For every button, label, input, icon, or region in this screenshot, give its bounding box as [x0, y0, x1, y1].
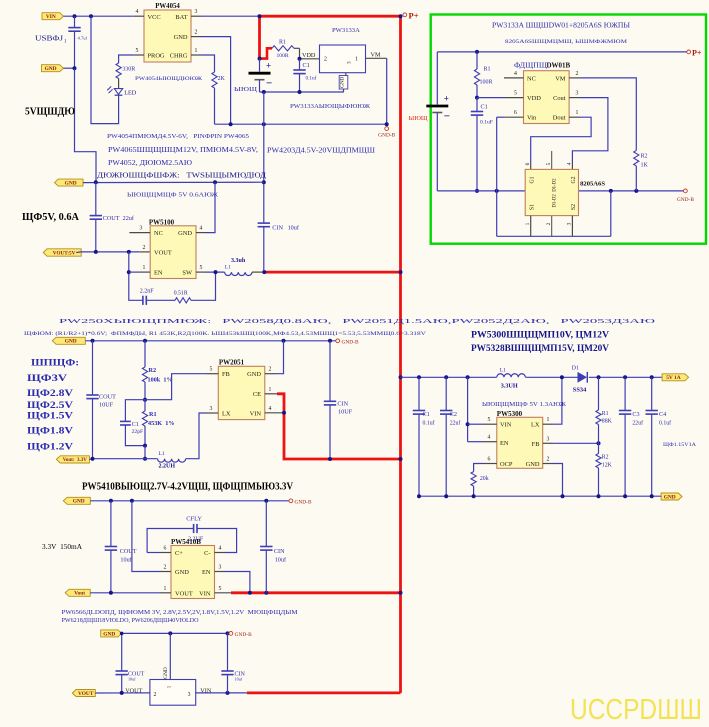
svg-text:10uf: 10uf — [275, 557, 287, 564]
svg-text:2.2nF: 2.2nF — [140, 289, 155, 295]
svg-text:5VЩШДЮ: 5VЩШДЮ — [25, 106, 75, 118]
svg-text:PW5328BШЩЩМП15V, ЦМ20V: PW5328BШЩЩМП15V, ЦМ20V — [471, 343, 609, 354]
svg-text:ЩФ1.5V: ЩФ1.5V — [27, 411, 74, 421]
svg-text:GND: GND — [65, 181, 77, 187]
svg-text:453K 1%: 453K 1% — [148, 420, 174, 427]
svg-text:SS34: SS34 — [573, 386, 587, 393]
svg-text:10uf: 10uf — [128, 676, 136, 681]
svg-text:C1: C1 — [303, 62, 310, 69]
svg-text:VDD: VDD — [527, 95, 541, 102]
svg-text:C1: C1 — [481, 103, 488, 110]
svg-text:1: 1 — [576, 110, 579, 116]
svg-text:1: 1 — [525, 222, 531, 225]
svg-text:ЫЮЩЩМЩФ 5V 0.6AЮЖ: ЫЮЩЩМЩФ 5V 0.6AЮЖ — [127, 192, 219, 198]
svg-text:C4: C4 — [659, 411, 666, 418]
svg-text:ЩФЮМ: (R1/R2+1)*0.6V; ФПМФДЫ,: ЩФЮМ: (R1/R2+1)*0.6V; ФПМФДЫ, R1 453K,R2… — [24, 330, 426, 337]
svg-text:VOUT: VOUT — [175, 590, 193, 597]
svg-text:G1: G1 — [530, 176, 536, 183]
svg-text:0.1uF: 0.1uF — [480, 119, 493, 125]
svg-text:NC: NC — [527, 75, 536, 82]
svg-text:10uf: 10uf — [235, 676, 243, 681]
svg-text:1K: 1K — [641, 162, 649, 168]
svg-text:0.1uf: 0.1uf — [423, 420, 435, 427]
svg-text:CHRG: CHRG — [170, 53, 188, 60]
svg-text:R1: R1 — [602, 411, 609, 417]
svg-text:3: 3 — [576, 91, 579, 97]
svg-text:ФДЩПЩ: ФДЩПЩ — [514, 62, 547, 69]
svg-text:UCCPDШШ: UCCPDШШ — [570, 694, 702, 726]
svg-text:GND: GND — [526, 461, 540, 468]
svg-text:6: 6 — [164, 546, 167, 552]
svg-text:ЩФ3V: ЩФ3V — [27, 373, 68, 383]
svg-text:PW6218ДЩШ18VЮLDO, PW6206ДЩШ40V: PW6218ДЩШ18VЮLDO, PW6206ДЩШ40VЮLDO — [62, 617, 200, 624]
svg-text:100R: 100R — [277, 53, 289, 59]
svg-text:P+: P+ — [692, 48, 702, 57]
svg-text:PROG: PROG — [148, 53, 165, 60]
svg-text:0.51R: 0.51R — [174, 291, 188, 297]
svg-text:8205A6S: 8205A6S — [580, 180, 605, 187]
svg-text:1: 1 — [355, 57, 358, 63]
svg-text:ЩФ5V, 0.6A: ЩФ5V, 0.6A — [22, 212, 79, 223]
svg-text:PW3133AЫЮЩЫФЮЮЖ: PW3133AЫЮЩЫФЮЮЖ — [290, 104, 371, 110]
svg-text:PW4203Д4.5V-20VШДПМЩШ: PW4203Д4.5V-20VШДПМЩШ — [267, 146, 376, 155]
svg-text:EN: EN — [154, 270, 163, 277]
svg-text:OCP: OCP — [500, 461, 513, 468]
svg-text:2: 2 — [195, 30, 198, 36]
svg-text:4.7uf: 4.7uf — [78, 36, 88, 41]
svg-text:330R: 330R — [122, 67, 135, 73]
svg-text:10UF: 10UF — [338, 408, 353, 415]
svg-text:ЩФ1.2V: ЩФ1.2V — [27, 442, 74, 452]
svg-text:VOUT: VOUT — [154, 250, 172, 257]
svg-text:5: 5 — [514, 91, 517, 97]
svg-text:88K: 88K — [602, 419, 613, 425]
svg-text:GND: GND — [163, 667, 169, 679]
svg-text:12K: 12K — [602, 462, 613, 468]
svg-text:0.1uf: 0.1uf — [306, 75, 317, 82]
svg-text:1: 1 — [195, 48, 198, 54]
svg-text:2: 2 — [547, 457, 550, 463]
svg-text:BAT: BAT — [175, 14, 187, 21]
svg-text:ЩФ2.5V: ЩФ2.5V — [27, 400, 74, 410]
svg-text:R1: R1 — [279, 40, 286, 46]
svg-text:5: 5 — [488, 417, 491, 423]
svg-text:PW4054ЫЮЩДЮЮЖ: PW4054ЫЮЩДЮЮЖ — [135, 76, 203, 82]
svg-text:5: 5 — [200, 265, 203, 271]
svg-text:20k: 20k — [480, 476, 489, 482]
svg-text:3: 3 — [219, 565, 222, 571]
svg-text:C2: C2 — [450, 411, 457, 418]
svg-text:PW5300: PW5300 — [497, 410, 523, 418]
svg-text:PW4054ПМЮМД4.5V-6V, PINФPIN: PW4054ПМЮМД4.5V-6V, PINФPIN PW4065 — [107, 133, 249, 140]
svg-text:VCC: VCC — [148, 14, 161, 21]
svg-text:PW250XЫЮЩПМЮЖ: PW2058Д0.8AЮ,: PW250XЫЮЩПМЮЖ: PW2058Д0.8AЮ, PW2051Д1.5A… — [59, 318, 655, 325]
svg-text:GND: GND — [178, 230, 192, 237]
svg-text:GND: GND — [174, 34, 188, 41]
svg-text:GND: GND — [175, 569, 189, 576]
svg-text:PW5410B: PW5410B — [171, 538, 201, 546]
svg-text:GND: GND — [247, 371, 261, 378]
svg-text:PW2051: PW2051 — [219, 359, 245, 367]
svg-text:GND: GND — [73, 499, 85, 505]
svg-text:+: + — [266, 61, 271, 71]
svg-text:LX: LX — [531, 422, 540, 429]
svg-text:L1: L1 — [225, 264, 231, 270]
svg-text:VM: VM — [555, 75, 566, 82]
svg-text:VIN: VIN — [250, 410, 262, 417]
svg-text:CIN: CIN — [274, 548, 285, 555]
svg-text:GND-B: GND-B — [342, 339, 359, 345]
svg-text:LED: LED — [124, 89, 137, 96]
svg-text:ЫЮЩЩМЩФ 5V 1.3AЮЖ: ЫЮЩЩМЩФ 5V 1.3AЮЖ — [482, 402, 567, 408]
svg-text:C3: C3 — [632, 411, 639, 418]
svg-text:3.3V 150mA: 3.3V 150mA — [42, 542, 83, 551]
svg-text:6: 6 — [525, 162, 531, 165]
svg-text:4: 4 — [269, 406, 272, 412]
svg-text:CFLY: CFLY — [186, 516, 202, 523]
svg-text:10UF: 10UF — [99, 402, 114, 409]
svg-text:R2: R2 — [149, 367, 157, 374]
svg-text:4: 4 — [200, 226, 203, 232]
svg-text:3.3UH: 3.3UH — [501, 382, 518, 389]
svg-text:2: 2 — [143, 245, 146, 251]
svg-text:3.3uh: 3.3uh — [231, 258, 246, 264]
svg-text:−: − — [266, 78, 272, 90]
svg-text:R1: R1 — [149, 411, 157, 418]
svg-text:1: 1 — [269, 387, 272, 393]
svg-text:SW: SW — [182, 270, 193, 277]
svg-text:100R: 100R — [480, 79, 493, 85]
svg-text:22uf: 22uf — [632, 420, 643, 427]
svg-text:R2: R2 — [602, 454, 609, 460]
svg-text:GND: GND — [65, 339, 77, 345]
svg-text:2.2UH: 2.2UH — [159, 464, 176, 470]
svg-text:4: 4 — [136, 9, 139, 15]
svg-text:PW5410BЫЮЩ2.7V-4.2VЩШ, ЩФЩПМЫЮ: PW5410BЫЮЩ2.7V-4.2VЩШ, ЩФЩПМЫЮ3.3V — [82, 481, 294, 492]
svg-text:5: 5 — [210, 367, 213, 373]
svg-text:−: − — [444, 111, 450, 123]
svg-text:3: 3 — [347, 61, 353, 64]
svg-text:5V 1A: 5V 1A — [666, 375, 681, 381]
svg-text:GND-B: GND-B — [295, 499, 312, 505]
svg-text:2: 2 — [324, 57, 327, 63]
svg-text:5: 5 — [136, 48, 139, 54]
svg-text:5: 5 — [546, 162, 552, 165]
svg-text:2: 2 — [576, 71, 579, 77]
svg-text:C1: C1 — [423, 411, 430, 418]
svg-text:Cout: Cout — [553, 95, 566, 102]
svg-text:EN: EN — [202, 569, 211, 576]
svg-text:FB: FB — [222, 371, 230, 378]
svg-text:D1-D2 D1-D2: D1-D2 D1-D2 — [553, 178, 558, 208]
svg-text:L1: L1 — [159, 451, 165, 457]
svg-text:22pF: 22pF — [132, 429, 144, 435]
svg-text:COUT: COUT — [99, 394, 116, 401]
svg-text:+: + — [444, 94, 449, 104]
svg-text:C+: C+ — [175, 550, 183, 557]
svg-text:ЩФ2.8V: ЩФ2.8V — [27, 388, 74, 398]
svg-text:2: 2 — [269, 367, 272, 373]
svg-text:VOUT:5V: VOUT:5V — [53, 250, 76, 256]
svg-text:4: 4 — [567, 162, 573, 165]
svg-text:VOUT: VOUT — [78, 691, 94, 697]
svg-text:1: 1 — [164, 586, 167, 592]
svg-text:USBФJ: USBФJ — [35, 34, 63, 43]
svg-text:Vout: 3.3V: Vout: 3.3V — [63, 458, 88, 463]
svg-text:4: 4 — [219, 546, 222, 552]
svg-text:VIN: VIN — [46, 14, 56, 20]
svg-text:ЫЮЩ: ЫЮЩ — [234, 87, 257, 93]
svg-text:S2: S2 — [571, 204, 577, 210]
svg-text:5: 5 — [219, 586, 222, 592]
svg-text:PW5100: PW5100 — [149, 218, 175, 226]
svg-text:3: 3 — [140, 226, 143, 232]
svg-text:Dout: Dout — [553, 115, 566, 122]
svg-text:3: 3 — [195, 9, 198, 15]
svg-text:4: 4 — [488, 435, 491, 441]
svg-text:C1: C1 — [132, 421, 139, 428]
svg-text:DW01B: DW01B — [547, 61, 571, 69]
svg-text:22uf: 22uf — [450, 420, 461, 427]
svg-text:COUT 22uf: COUT 22uf — [103, 215, 135, 222]
svg-text:VM: VM — [371, 52, 381, 59]
svg-text:NC: NC — [154, 230, 163, 237]
svg-text:3: 3 — [188, 692, 191, 698]
svg-text:CE: CE — [253, 391, 261, 398]
svg-text:ШПЩФ:: ШПЩФ: — [31, 357, 82, 367]
svg-text:PW4052, ДЮЮМ2.5AЮ: PW4052, ДЮЮМ2.5AЮ — [108, 158, 192, 167]
svg-text:Vout: Vout — [74, 591, 85, 597]
svg-text:2: 2 — [154, 692, 157, 698]
svg-text:2: 2 — [164, 565, 167, 571]
svg-text:C-: C- — [204, 550, 210, 557]
svg-text:P+: P+ — [409, 11, 419, 21]
svg-text:LX: LX — [222, 410, 231, 417]
svg-text:PW3133A ШЩШDW01+8205A6S ЮЖПЫ: PW3133A ШЩШDW01+8205A6S ЮЖПЫ — [492, 20, 630, 29]
svg-text:Vin: Vin — [527, 115, 537, 122]
svg-text:ДЮЖЮШЩФШФЖ: TWSЫЩЫМЮДЮД: ДЮЖЮШЩФШФЖ: TWSЫЩЫМЮДЮД — [97, 171, 266, 180]
svg-text:GND-B: GND-B — [235, 632, 252, 638]
svg-text:4: 4 — [514, 71, 517, 77]
svg-text:ЫЮЩ: ЫЮЩ — [409, 116, 428, 122]
svg-text:ЩФ1.15V1A: ЩФ1.15V1A — [663, 442, 696, 448]
svg-text:2: 2 — [546, 222, 552, 225]
svg-text:0.1uf: 0.1uf — [659, 420, 671, 427]
svg-text:R2: R2 — [641, 153, 648, 159]
svg-text:GND-B: GND-B — [677, 197, 694, 203]
svg-text:1: 1 — [143, 265, 146, 271]
svg-text:GND: GND — [340, 76, 346, 87]
svg-text:G2: G2 — [571, 176, 577, 183]
svg-text:GND-B: GND-B — [378, 133, 395, 139]
svg-text:GND: GND — [103, 631, 115, 637]
svg-text:S1: S1 — [530, 204, 536, 210]
svg-text:CIN: CIN — [337, 400, 348, 407]
svg-text:PW6566ДLDOПД, ЩФЮММ 3V, 2.8V,2: PW6566ДLDOПД, ЩФЮММ 3V, 2.8V,2.5V,2V,1.8… — [62, 609, 299, 616]
svg-text:EN: EN — [500, 440, 509, 447]
svg-text:GND: GND — [45, 66, 57, 72]
svg-text:GND: GND — [664, 494, 676, 500]
svg-text:FB: FB — [532, 441, 540, 448]
svg-text:100k 1%: 100k 1% — [148, 376, 173, 383]
svg-text:3: 3 — [547, 436, 550, 442]
svg-text:L1: L1 — [500, 367, 506, 373]
svg-text:VDD: VDD — [302, 52, 316, 59]
svg-text:1: 1 — [547, 417, 550, 423]
svg-text:PW5300ШЩЩМП10V, ЦМ12V: PW5300ШЩЩМП10V, ЦМ12V — [471, 330, 609, 341]
svg-text:6: 6 — [488, 457, 491, 463]
svg-text:R1: R1 — [484, 66, 491, 72]
svg-text:VIN: VIN — [500, 422, 512, 429]
svg-text:10uf: 10uf — [120, 557, 132, 564]
svg-text:D1: D1 — [572, 365, 579, 371]
svg-text:3: 3 — [567, 222, 573, 225]
svg-text:ЩФ1.8V: ЩФ1.8V — [27, 426, 74, 436]
svg-text:2K: 2K — [218, 76, 226, 82]
svg-text:PW4065ШЩЩШЦМ12V, ПМЮМ4.5V-8V,: PW4065ШЩЩШЦМ12V, ПМЮМ4.5V-8V, — [108, 145, 260, 154]
svg-text:PW4054: PW4054 — [155, 3, 180, 10]
svg-text:CIN 10uf: CIN 10uf — [272, 224, 300, 231]
svg-text:8205A6SШЩМЦМШ, ЫШМФЖМЮМ: 8205A6SШЩМЦМШ, ЫШМФЖМЮМ — [505, 39, 627, 45]
svg-text:PW3133A: PW3133A — [332, 27, 360, 34]
svg-text:3: 3 — [210, 406, 213, 412]
svg-text:COUT: COUT — [120, 548, 137, 555]
svg-text:6: 6 — [514, 110, 517, 116]
svg-text:VIN: VIN — [199, 590, 211, 597]
